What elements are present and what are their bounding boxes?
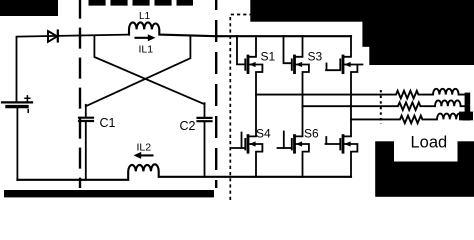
svg-text:S6: S6 (304, 127, 319, 141)
svg-text:C2: C2 (180, 119, 196, 133)
svg-text:S3: S3 (308, 49, 323, 63)
svg-text:S1: S1 (261, 49, 276, 63)
svg-text:C1: C1 (100, 116, 116, 130)
svg-text:Load: Load (411, 133, 448, 151)
svg-text:IL2: IL2 (137, 141, 152, 153)
svg-text:L1: L1 (139, 11, 151, 22)
svg-text:IL1: IL1 (139, 44, 154, 56)
svg-text:S4: S4 (256, 127, 271, 141)
